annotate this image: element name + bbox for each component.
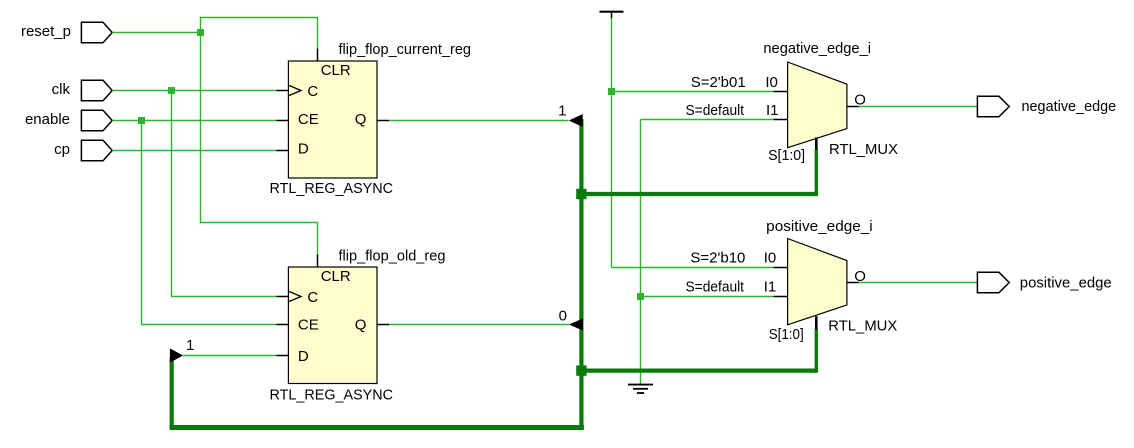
thick bus branch to upper mux S horizontal <box>579 192 816 196</box>
svg-text:C: C <box>307 83 318 100</box>
flip-flop flip_flop_old_reg <box>270 247 446 403</box>
svg-text:RTL_REG_ASYNC: RTL_REG_ASYNC <box>270 180 394 197</box>
bus entry arrow Q lower with label 0 <box>559 308 583 331</box>
thick bus bottom feedback horizontal <box>170 425 584 430</box>
thick bus feedback left vertical <box>170 357 174 429</box>
svg-text:I1: I1 <box>764 279 777 296</box>
svg-text:D: D <box>298 348 309 365</box>
output port positive_edge <box>977 272 1111 292</box>
junction VCC net <box>608 88 615 95</box>
output port negative_edge <box>977 96 1116 116</box>
wire ground branch to lower I1 <box>641 296 774 298</box>
wire D lower input net <box>183 355 277 357</box>
svg-text:S=default: S=default <box>686 279 745 296</box>
pin I1 lower stub <box>774 296 788 298</box>
thick bus trunk vertical <box>579 119 583 429</box>
svg-text:D: D <box>298 140 309 157</box>
svg-text:1: 1 <box>186 337 194 354</box>
pin O lower stub <box>847 282 859 284</box>
pin D upper stub <box>277 150 289 152</box>
power symbol VCC <box>600 12 624 19</box>
pin Q upper stub <box>377 120 389 122</box>
svg-text:S=2'b10: S=2'b10 <box>690 250 745 267</box>
svg-text:CE: CE <box>298 317 319 334</box>
pin CLR lower stub <box>317 255 319 268</box>
svg-text:S=default: S=default <box>686 102 745 119</box>
svg-text:flip_flop_current_reg: flip_flop_current_reg <box>339 41 472 58</box>
svg-text:RTL_MUX: RTL_MUX <box>829 141 898 158</box>
pin S upper stub <box>815 137 818 149</box>
svg-text:S[1:0]: S[1:0] <box>769 326 804 343</box>
wire O upper to output port <box>859 106 978 108</box>
pin O upper stub <box>847 106 859 108</box>
pin Q lower stub <box>377 324 389 326</box>
pin I1 upper stub <box>774 119 788 121</box>
svg-text:clk: clk <box>52 81 71 98</box>
thick bus branch to lower mux S vertical <box>815 329 818 373</box>
wire cp net <box>112 150 276 152</box>
svg-text:I1: I1 <box>766 102 779 119</box>
pin S lower stub <box>815 316 818 329</box>
svg-text:S=2'b01: S=2'b01 <box>691 74 746 91</box>
junction clk net <box>168 87 175 94</box>
pin CE lower stub <box>277 324 289 326</box>
svg-text:Q: Q <box>355 111 367 128</box>
pin CE upper stub <box>277 120 289 122</box>
wire reset_p branch to lower CLR <box>201 33 318 256</box>
pin I0 upper stub <box>774 91 788 93</box>
svg-text:CLR: CLR <box>321 62 351 79</box>
svg-text:I0: I0 <box>764 250 777 267</box>
wire reset_p branch to upper CLR <box>201 18 318 49</box>
ground <box>628 385 653 393</box>
svg-text:positive_edge: positive_edge <box>1020 275 1112 292</box>
input port clk <box>52 80 113 100</box>
svg-text:flip_flop_old_reg: flip_flop_old_reg <box>339 247 446 264</box>
wire Q lower net <box>389 324 569 326</box>
svg-text:I0: I0 <box>765 74 778 91</box>
wire VCC branch to lower I0 <box>612 267 774 269</box>
thick bus junction lower <box>576 365 586 375</box>
thick bus branch to upper mux S vertical <box>815 149 818 196</box>
wire enable net horizontal <box>112 120 276 122</box>
svg-text:CE: CE <box>298 111 319 128</box>
wire Q upper net <box>389 120 569 122</box>
svg-text:negative_edge_i: negative_edge_i <box>763 40 871 57</box>
svg-text:Q: Q <box>355 317 367 334</box>
wire ground net vertical <box>640 120 642 385</box>
wire clk branch to lower C <box>172 91 277 297</box>
pin CLR upper stub <box>317 49 319 62</box>
svg-text:RTL_MUX: RTL_MUX <box>828 318 897 335</box>
wire O lower to output port <box>859 282 978 284</box>
input port reset_p <box>21 22 112 42</box>
svg-text:0: 0 <box>559 308 567 325</box>
svg-text:C: C <box>307 289 318 306</box>
bus exit arrow D lower with label 1 <box>170 337 194 363</box>
wire ground branch to upper I1 <box>641 119 774 121</box>
bus entry arrow Q upper with label 1 <box>558 102 583 127</box>
svg-text:CLR: CLR <box>321 268 351 285</box>
pin I0 lower stub <box>774 267 788 269</box>
junction enable net <box>138 117 145 124</box>
pin C upper stub <box>277 90 289 92</box>
svg-text:cp: cp <box>54 141 70 158</box>
svg-text:S[1:0]: S[1:0] <box>768 147 805 164</box>
pin C lower stub <box>277 296 289 298</box>
wire VCC net vertical <box>611 18 613 268</box>
wire reset_p net horizontal <box>112 32 200 34</box>
pin D lower stub <box>277 355 289 357</box>
junction ground net <box>637 293 644 300</box>
svg-text:positive_edge_i: positive_edge_i <box>766 218 873 235</box>
svg-text:1: 1 <box>558 102 566 119</box>
wire clk net horizontal <box>112 90 276 92</box>
input port cp <box>54 140 112 160</box>
input port enable <box>25 110 112 130</box>
mux negative_edge_i <box>686 40 899 164</box>
wire VCC branch to upper I0 <box>612 91 774 93</box>
junction reset_p net <box>197 29 204 36</box>
svg-text:RTL_REG_ASYNC: RTL_REG_ASYNC <box>270 386 394 403</box>
thick bus branch to lower mux S horizontal <box>579 369 816 373</box>
wire enable branch to lower CE <box>142 121 277 325</box>
svg-text:enable: enable <box>25 111 70 128</box>
svg-text:reset_p: reset_p <box>21 23 71 40</box>
thick bus junction upper <box>576 189 586 199</box>
mux positive_edge_i <box>686 218 898 343</box>
svg-text:negative_edge: negative_edge <box>1022 98 1117 115</box>
flip-flop flip_flop_current_reg <box>270 41 472 197</box>
